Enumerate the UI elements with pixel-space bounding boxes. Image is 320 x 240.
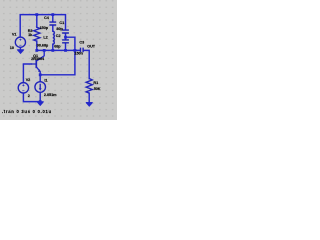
wire midpoint to emitter staircase xyxy=(40,37,75,75)
wire C2 bottom lead xyxy=(65,43,67,50)
base bar xyxy=(35,60,37,68)
junction collector node / C3 crossing xyxy=(74,49,77,52)
ground below V2/I1 node xyxy=(37,102,44,106)
svg-text:50K: 50K xyxy=(94,87,101,91)
svg-text:V1: V1 xyxy=(12,32,17,36)
svg-text:L2: L2 xyxy=(43,36,47,40)
junction C1-C2 midpoint tap xyxy=(64,36,67,39)
resistor R3 xyxy=(34,27,40,41)
svg-text:10: 10 xyxy=(10,46,14,50)
wire V2 bottom to ground run xyxy=(23,93,40,102)
wire V1 bottom lead xyxy=(19,47,21,49)
svg-text:I1: I1 xyxy=(44,79,47,83)
resistor R1 xyxy=(86,79,92,94)
current source I1 xyxy=(35,82,46,93)
svg-text:2N3904: 2N3904 xyxy=(31,57,45,61)
background xyxy=(0,0,117,120)
junction collector node / L2 bottom xyxy=(51,49,54,52)
wire emitter to I1 top xyxy=(39,75,41,82)
svg-text:OUT: OUT xyxy=(87,44,95,48)
svg-text:C2: C2 xyxy=(56,34,61,38)
wire collector rail xyxy=(37,49,79,51)
wire I1 bottom lead xyxy=(39,92,41,102)
svg-text:2: 2 xyxy=(28,94,30,98)
svg-text:2.051m: 2.051m xyxy=(44,93,57,97)
svg-text:C1: C1 xyxy=(59,21,64,25)
junction VCC rail / C4 top xyxy=(51,13,54,16)
wire R3 top lead xyxy=(36,15,38,28)
wire C4 to L2 series link xyxy=(52,26,54,32)
junction emitter node / I1 top xyxy=(39,73,42,76)
junction VCC rail / R3 top xyxy=(35,13,38,16)
emitter with arrow xyxy=(37,67,41,75)
junction collector node / C2 bottom xyxy=(64,49,67,52)
ground below V1 xyxy=(17,50,24,54)
junction V2-I1 bottom ground node xyxy=(39,100,42,103)
capacitor C3 (output coupling) xyxy=(81,48,84,53)
capacitor C1 xyxy=(62,30,69,33)
wire R1 bottom lead xyxy=(88,93,90,102)
wire C1 bottom to midpoint junction xyxy=(65,33,67,39)
collector lead xyxy=(37,50,45,60)
capacitor C2 xyxy=(62,40,69,43)
emitter arrowhead xyxy=(38,69,41,72)
wire L2 bottom lead xyxy=(52,44,54,50)
svg-text:.tran 0 3us 0 0.01u: .tran 0 3us 0 0.01u xyxy=(2,109,52,114)
svg-text:150p: 150p xyxy=(40,26,49,30)
base stub xyxy=(31,63,36,65)
wire R3 bottom lead xyxy=(36,41,38,50)
svg-text:68p: 68p xyxy=(54,44,61,48)
svg-text:C3: C3 xyxy=(79,40,84,44)
svg-text:90.68µ: 90.68µ xyxy=(37,44,48,48)
svg-text:80p: 80p xyxy=(56,27,63,31)
I1 arrowhead xyxy=(39,88,42,91)
wire VCC top rail with corners down to V1 and C1 xyxy=(20,15,65,37)
voltage source V1 xyxy=(15,37,25,47)
inductor L2 xyxy=(53,31,55,44)
wire C4 top lead xyxy=(52,15,54,22)
transistor Q1 2N3904 xyxy=(31,50,44,74)
svg-text:V2: V2 xyxy=(26,78,31,82)
capacitor C4 xyxy=(49,22,56,25)
wire C3 right lead to output column xyxy=(84,50,90,78)
ground below R1 xyxy=(86,103,93,107)
wire C3 left lead xyxy=(78,49,81,51)
svg-text:R1: R1 xyxy=(93,81,98,85)
junction collector node / R3 bottom xyxy=(35,49,38,52)
voltage source V2 xyxy=(18,83,28,93)
wire Q1 base to V2 xyxy=(23,64,31,83)
svg-text:150n: 150n xyxy=(74,52,83,56)
junction collector node / Q1 collector xyxy=(43,49,46,52)
